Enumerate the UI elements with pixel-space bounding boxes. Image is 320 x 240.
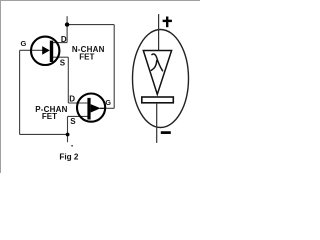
wire: N-FET drain riser: [66, 25, 68, 43]
scan speck: [71, 145, 73, 147]
wire: anode lead from +: [158, 14, 160, 50]
svg-text:G: G: [105, 98, 111, 107]
svg-text:FET: FET: [42, 112, 57, 121]
transistor Q2 P-channel FET circle: [77, 94, 105, 122]
svg-text:G: G: [20, 39, 26, 48]
node B junction dot: [66, 133, 70, 137]
wire: P-FET source down through node B, bottom stub: [67, 116, 69, 142]
wire: bottom horizontal to node B: [20, 133, 68, 135]
wire: top stub above node A: [66, 16, 68, 24]
wire: node A to P-FET gate corner (top horizontal): [67, 24, 114, 26]
svg-text:S: S: [70, 117, 76, 126]
lambda symbol: [151, 54, 162, 71]
plus terminal: [163, 17, 172, 28]
transistor Q1 N-channel FET circle: [31, 37, 59, 65]
svg-text:D: D: [69, 95, 75, 104]
wire: N-FET source lead: [53, 56, 68, 58]
node A junction dot: [65, 22, 69, 26]
wire: into P-FET gate: [105, 107, 114, 109]
Q2 gate tip to circle edge: [100, 107, 105, 109]
wire: N-FET gate lead: [20, 49, 43, 51]
diode D1 triangle: [143, 51, 171, 95]
wire: P-FET source lead: [68, 115, 88, 117]
minus terminal: [161, 131, 171, 134]
diode cathode plate rectangle: [142, 97, 174, 103]
svg-text:D: D: [61, 35, 67, 44]
wire: into P-FET drain: [68, 102, 87, 104]
Q2 channel bar: [87, 98, 90, 120]
wire: right vertical down to P-FET gate level: [113, 25, 115, 109]
wire: N-FET source down to P-FET drain: [67, 57, 69, 103]
wire: cathode lead to -: [156, 103, 158, 143]
Q2 gate arrow: [91, 104, 101, 112]
svg-text:FET: FET: [79, 53, 94, 62]
svg-text:S: S: [60, 58, 66, 67]
wire: left vertical feedback: [19, 50, 21, 134]
Q1 gate arrow: [42, 46, 50, 55]
wire: N-FET drain lead: [53, 42, 67, 44]
laser diode package ellipse: [133, 30, 189, 128]
Q1 channel bar: [50, 41, 53, 62]
svg-text:Fig 2: Fig 2: [59, 152, 79, 161]
